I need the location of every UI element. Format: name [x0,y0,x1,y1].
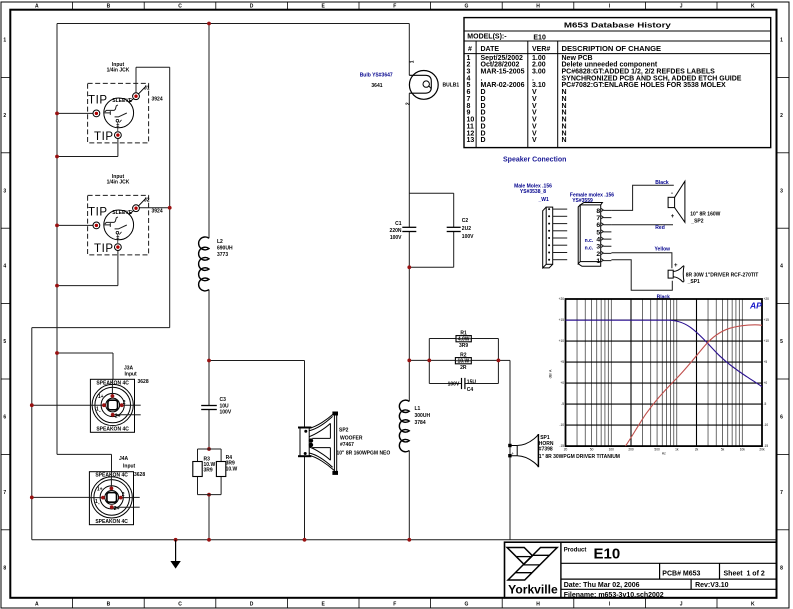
wire J4A minus feed [32,496,103,498]
svg-text:13: 13 [467,137,475,144]
svg-text:_SP1: _SP1 [687,279,700,285]
wire right bus x170 [169,67,171,327]
svg-text:WOOFER: WOOFER [340,435,363,441]
svg-text:Bulb YS#3647: Bulb YS#3647 [360,73,393,79]
wire woofer branch vertical [304,361,306,428]
svg-text:+20: +20 [764,297,770,301]
svg-text:3: 3 [780,188,783,194]
wire C2 branch bottom [409,266,453,268]
svg-text:BULB1: BULB1 [443,83,460,89]
wire J1 sleeve to right bus [136,66,170,68]
wire R2 main left [429,359,455,361]
capacitor C2 2U2 [447,227,461,231]
wire J4A stub pin2 [134,496,140,498]
wire mid bus x209 lower [208,290,210,406]
svg-text:690UH: 690UH [217,246,233,252]
wire C2 upper [453,193,455,227]
svg-text:3773: 3773 [217,252,228,258]
svg-text:Hz: Hz [662,452,666,456]
svg-text:D: D [250,3,254,9]
svg-text:C4: C4 [467,387,474,393]
svg-text:SLEEVE: SLEEVE [112,210,132,216]
svg-text:2+: 2+ [114,506,120,512]
svg-text:SLEEVE: SLEEVE [112,98,132,104]
wire R3R4 to ground bus [208,495,210,540]
node R-block right [497,359,501,363]
svg-text:DATE: DATE [481,46,500,53]
svg-text:100: 100 [609,447,615,451]
wire bulb bus lower [408,93,410,227]
svg-text:1: 1 [410,60,416,63]
svg-text:1: 1 [780,38,783,44]
svg-text:SPEAKON 4C: SPEAKON 4C [95,519,128,525]
svg-text:G: G [464,3,468,9]
svg-text:3: 3 [596,244,600,251]
svg-text:#7467: #7467 [340,442,354,448]
speaker SP2 symbol (connection diagram) [668,181,685,222]
svg-text:5: 5 [780,339,783,345]
svg-text:YS#3538_8: YS#3538_8 [520,189,546,195]
svg-text:A: A [35,601,39,607]
svg-text:5k: 5k [721,447,725,451]
svg-text:M653 Database History: M653 Database History [564,22,671,29]
svg-text:C3: C3 [220,397,227,403]
svg-text:SP2: SP2 [339,428,349,434]
svg-text:3: 3 [3,188,6,194]
svg-text:J1: J1 [144,85,150,91]
svg-text:6: 6 [780,415,783,421]
wire R2 main right [471,359,498,361]
resistor R4 [216,462,225,477]
svg-text:TIP: TIP [88,95,108,107]
svg-text:4: 4 [780,264,783,270]
svg-text:+: + [674,263,678,269]
wire J3A feed horizontal [57,352,113,354]
svg-text:V: V [532,137,537,144]
chart curve horn highpass (red) [626,325,763,446]
svg-text:Date: Thu Mar 02, 2006: Date: Thu Mar 02, 2006 [564,582,640,589]
svg-text:J3A: J3A [124,366,134,372]
inductor L2 690UH [199,237,209,291]
node L1 ground [407,538,411,542]
svg-text:-: - [671,191,673,197]
svg-text:7: 7 [780,490,783,496]
wire bulb bus upper [408,24,410,76]
wire R-block feed [409,359,429,361]
svg-text:+10: +10 [559,339,565,343]
wire J2 bottom tip drop [117,251,119,286]
svg-text:7: 7 [3,490,6,496]
node J2 sleeve bus [168,206,172,210]
wire Black return from SP1 [611,260,672,290]
svg-text:3924: 3924 [152,208,163,214]
svg-text:1+: 1+ [98,394,104,400]
resistor network R3 R4 frame [198,449,222,495]
svg-text:50: 50 [590,447,594,451]
wire horn feed vertical [509,360,511,539]
svg-text:8: 8 [596,208,600,215]
wire L1 upper [408,360,410,401]
svg-text:20k: 20k [759,447,765,451]
svg-text:L1: L1 [415,406,421,412]
svg-text:J2: J2 [144,197,150,203]
svg-text:4.0W: 4.0W [458,337,470,343]
svg-text:Product: Product [564,547,587,553]
svg-text:Filename: m653-3v10.sch2002: Filename: m653-3v10.sch2002 [564,592,664,599]
svg-text:2: 2 [3,113,6,119]
capacitor C4 [462,378,465,389]
node J2 sleeve return [55,284,59,288]
svg-text:SPEAKON 4C: SPEAKON 4C [96,427,129,433]
node R-block left [427,359,431,363]
svg-text:300UH: 300UH [415,413,431,419]
svg-text:MAR-02-2006: MAR-02-2006 [481,82,525,89]
node J4A minus [30,496,34,500]
svg-text:1k: 1k [675,447,679,451]
wire C1 lower [408,232,410,361]
svg-text:2: 2 [405,102,411,105]
connector J3A SPEAKON 4C [90,379,134,432]
wire J3A minus feed [32,404,104,406]
svg-text:Speaker Conection: Speaker Conection [503,157,566,164]
wire woofer branch horizontal [209,360,305,362]
svg-text:3641: 3641 [371,83,382,89]
node R3R4 top [207,447,211,451]
wire mid bus x209 upper [208,24,210,239]
wire Red to SP2 bottom [611,224,673,226]
svg-text:n.c.: n.c. [585,245,594,251]
svg-text:8R 30W 1"DRIVER RCF-270TIT: 8R 30W 1"DRIVER RCF-270TIT [686,272,759,278]
svg-text:2: 2 [123,400,126,406]
svg-text:C2: C2 [462,218,469,224]
wire mid bus x209 to R3R4 [208,410,210,450]
wire Black to SP2 top [611,185,673,210]
svg-text:#: # [468,46,472,53]
node L1 top [407,359,411,363]
svg-text:J4A: J4A [119,456,129,462]
svg-text:100V: 100V [462,234,474,240]
svg-text:K: K [751,3,755,9]
svg-text:H: H [536,601,540,607]
wire woofer to ground bus [304,457,306,540]
svg-text:TIP: TIP [94,243,114,255]
svg-text:B: B [107,3,111,9]
svg-text:D: D [481,137,486,144]
svg-text:3R9: 3R9 [459,343,468,349]
node woofer ground [303,538,307,542]
node woofer branch [207,359,211,363]
wire Yellow to SP1 top [611,253,672,269]
capacitor C3 10U [201,406,217,410]
svg-text:+15: +15 [559,318,565,322]
svg-text:Yellow: Yellow [655,247,671,253]
svg-text:AP: AP [749,301,762,311]
svg-text:Rev:V3.10: Rev:V3.10 [695,582,729,589]
wire left bus x57 [56,24,58,455]
connector female molex YS#3559 [578,203,602,267]
svg-text:K: K [751,601,755,607]
svg-text:6: 6 [3,415,6,421]
svg-text:-10: -10 [764,423,769,427]
wire horn feed horizontal [498,359,510,361]
svg-text:D: D [250,601,254,607]
svg-text:F: F [393,601,396,607]
wire R1 branch right [497,339,499,361]
svg-text:10.W: 10.W [226,466,238,472]
svg-text:C: C [178,601,182,607]
svg-text:H: H [536,3,540,9]
svg-text:+: + [671,214,675,220]
svg-text:Yorkville: Yorkville [508,584,558,596]
svg-text:8: 8 [3,565,6,571]
wire J2 bottom tip horizontal [57,285,118,287]
svg-text:YS#3559: YS#3559 [572,198,593,204]
wire C2 lower [453,232,455,268]
node C1 C2 bottom [407,265,411,269]
capacitor C1 220N [402,227,416,231]
svg-text:Red: Red [655,225,664,231]
svg-text:+0: +0 [560,381,564,385]
node R3R4 ground [207,538,211,542]
svg-text:10" 8R 160WPGM NEO: 10" 8R 160WPGM NEO [337,450,391,456]
node R3R4 bottom [207,493,211,497]
svg-text:3628: 3628 [134,472,145,478]
chart minor gridlines [577,299,742,446]
svg-text:MODEL(S):-: MODEL(S):- [467,34,507,41]
wire C2 branch top [409,192,453,194]
svg-text:2: 2 [780,113,783,119]
svg-text:2R: 2R [460,365,467,371]
wire J1 sleeve up [135,67,137,93]
svg-text:3628: 3628 [138,379,149,385]
female molex pin stubs [601,208,612,262]
resistor R2 [455,352,471,371]
svg-text:3.00: 3.00 [532,69,546,76]
svg-text:100V: 100V [220,409,232,415]
svg-text:G: G [464,601,468,607]
wire C4 branch bottom right [465,383,499,385]
node top bus / mid bus junction [207,22,211,26]
connector J4A SPEAKON 4C [89,472,133,525]
svg-text:Sheet 1 of 2: Sheet 1 of 2 [724,570,765,577]
resistor R3 [193,462,202,477]
svg-text:E10: E10 [594,546,621,563]
wire C4 branch right [497,360,499,383]
node J2 tip [55,224,59,228]
wire J3A feed vertical [112,353,114,396]
svg-text:1/4in JCK: 1/4in JCK [107,68,130,74]
svg-text:1" 8R 30WPGM DRIVER TITANIUM: 1" 8R 30WPGM DRIVER TITANIUM [539,454,620,460]
svg-text:6: 6 [596,222,600,229]
svg-text:10" 8R 160W: 10" 8R 160W [690,211,720,217]
resistor R1 [456,330,471,349]
svg-text:F: F [393,3,396,9]
wire J3A stub pin2plus [135,414,141,416]
svg-text:220N: 220N [390,228,402,234]
wire J3A stub pin2 [135,404,141,406]
svg-text:+15: +15 [764,318,770,322]
svg-text:4: 4 [596,237,600,244]
svg-text:Input: Input [125,372,138,378]
svg-text:C: C [178,3,182,9]
svg-text:5: 5 [3,339,6,345]
inductor L1 300UH [399,400,409,452]
wire R1 branch left [428,339,430,361]
wire J1 bottom tip drop [117,139,119,157]
lamp BULB1 [360,60,460,105]
chart frequency response plot [566,299,763,446]
svg-text:dBr A: dBr A [549,369,553,378]
wire J2 tip feed [57,224,93,226]
wire J2 sleeve to right bus [139,207,169,209]
svg-text:MAR-15-2005: MAR-15-2005 [481,69,525,76]
svg-text:PCB# M653: PCB# M653 [662,570,700,577]
speaker SP1 horn symbol [509,434,539,467]
svg-text:R1: R1 [460,330,467,336]
svg-text:2k: 2k [695,447,699,451]
svg-text:Black: Black [655,180,669,186]
wire J4A feed horizontal [57,453,112,455]
svg-text:4: 4 [3,264,6,270]
wire left return bus x32 [31,328,33,540]
svg-text:-5: -5 [764,402,767,406]
svg-text:1+: 1+ [97,486,103,492]
svg-text:E10: E10 [533,35,546,42]
svg-text:15U: 15U [467,379,477,385]
svg-text:1: 1 [596,258,600,265]
Yorkville logo [507,548,557,581]
svg-text:2: 2 [122,492,125,498]
svg-text:8: 8 [780,565,783,571]
title block [505,542,777,598]
svg-text:C1: C1 [395,221,402,227]
node J1 sleeve return [55,155,59,159]
wire C4 branch left [428,360,430,383]
svg-text:+5: +5 [764,360,768,364]
svg-text:#7398: #7398 [539,447,553,453]
svg-text:-5: -5 [561,402,564,406]
svg-text:_SP2: _SP2 [690,219,703,225]
svg-text:PC#7082:GT:ENLARGE HOLES FOR 3: PC#7082:GT:ENLARGE HOLES FOR 3538 MOLEX [562,82,726,89]
node J3A minus [30,403,34,407]
svg-text:+5: +5 [560,360,564,364]
svg-text:J: J [680,3,683,9]
female molex pin numbers [596,208,600,265]
svg-text:3924: 3924 [152,96,163,102]
svg-text:3784: 3784 [415,420,426,426]
svg-text:_W1: _W1 [538,197,550,203]
svg-text:A: A [35,3,39,9]
svg-text:+20: +20 [559,297,565,301]
node ground tap [174,538,178,542]
svg-text:3R9: 3R9 [204,468,213,474]
svg-text:-10: -10 [559,423,564,427]
svg-text:100V: 100V [390,235,402,241]
svg-text:J: J [680,601,683,607]
svg-text:+0: +0 [764,381,768,385]
svg-text:1: 1 [3,38,6,44]
wire C4 branch bottom left [429,383,461,385]
svg-text:2U2: 2U2 [462,226,471,232]
svg-text:5: 5 [596,229,600,236]
svg-text:10.W: 10.W [458,359,470,365]
speaker SP1 driver symbol (connection diagram) [668,266,684,282]
wire J4A feed vertical [111,454,113,488]
node J1 tip [55,112,59,116]
wire J1 bottom tip horizontal [57,156,118,158]
svg-text:R2: R2 [460,352,467,358]
wire right bus turn [32,327,170,329]
connector J1 1/4in jack [88,62,163,143]
male molex pins and harness wires [548,208,567,261]
connector W1 male molex [543,207,553,268]
svg-text:n.c.: n.c. [585,238,594,244]
wire J4A stub pin2plus [134,506,140,508]
svg-text:N: N [562,137,567,144]
svg-text:200: 200 [628,447,634,451]
svg-text:100V: 100V [448,381,460,387]
chart major gridlines [566,299,763,446]
svg-text:B: B [107,601,111,607]
svg-text:Input: Input [123,463,136,469]
svg-text:L2: L2 [217,239,223,245]
svg-text:1/4in JCK: 1/4in JCK [107,180,130,186]
chart axis tick labels [559,297,770,456]
svg-text:20: 20 [564,447,568,451]
svg-text:2+: 2+ [115,414,121,420]
wire ground bus [32,539,777,541]
wire R1 branch top left [429,338,456,340]
wire L1 to ground bus [408,451,410,540]
table M653 Database History [464,18,771,148]
speaker SP2 woofer symbol [298,412,338,474]
svg-text:+: + [511,451,514,456]
svg-text:DESCRIPTION OF CHANGE: DESCRIPTION OF CHANGE [562,46,662,53]
wire R1 branch top right [471,338,498,340]
wire J1 tip feed [57,112,93,114]
svg-text:500: 500 [654,447,660,451]
svg-text:TIP: TIP [88,207,108,219]
svg-text:VER#: VER# [532,46,550,53]
svg-text:+10: +10 [764,339,770,343]
chart curve woofer lowpass (navy) [566,320,763,387]
svg-text:2: 2 [596,251,600,258]
wire top bus [57,23,409,25]
node J3A feed [55,351,59,355]
ground symbol [175,540,177,561]
svg-text:TIP: TIP [94,131,114,143]
svg-text:7: 7 [596,215,600,222]
svg-text:10k: 10k [740,447,746,451]
connector J2 1/4in jack [88,174,163,255]
